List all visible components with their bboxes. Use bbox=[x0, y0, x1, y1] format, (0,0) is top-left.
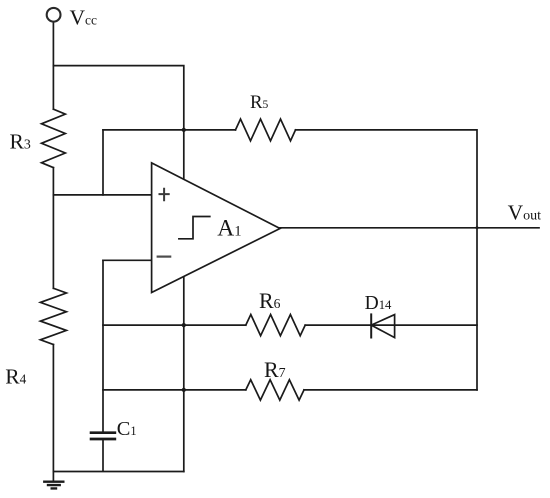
junction dot output column/Vout bbox=[476, 226, 479, 229]
wire C1 bottom bbox=[102, 439, 104, 472]
diode D14 triangle bbox=[371, 315, 394, 338]
resistor R7 bbox=[246, 380, 304, 400]
wire R5 feedback drop to + node bbox=[102, 130, 104, 195]
resistor R6 bbox=[246, 315, 305, 336]
wire R4 bottom to ground bbox=[52, 345, 54, 482]
wire Vcc rail and supply drop behind op-amp bbox=[53, 66, 183, 472]
wire ground rail bottom bbox=[53, 471, 183, 473]
resistor R5 bbox=[236, 119, 296, 141]
resistor R4 bbox=[40, 288, 66, 344]
wire output Vout bbox=[280, 227, 539, 229]
svg-text:D14: D14 bbox=[365, 293, 392, 314]
svg-text:R4: R4 bbox=[5, 364, 26, 388]
svg-text:R7: R7 bbox=[264, 357, 286, 382]
ground symbol bbox=[43, 482, 64, 489]
wire Vcc terminal to R3 top bbox=[52, 22, 54, 110]
wire divider node to + input bbox=[53, 194, 151, 196]
wire R7 line left bbox=[103, 389, 246, 391]
svg-text:C1: C1 bbox=[117, 418, 137, 440]
op-amp A1 body bbox=[152, 163, 280, 293]
junction dot supply/R6 crossing bbox=[182, 323, 186, 327]
junction dot supply/R7 crossing bbox=[182, 388, 186, 392]
wire R5 to output column bbox=[296, 130, 478, 390]
resistor R3 bbox=[42, 109, 66, 167]
svg-text:R3: R3 bbox=[10, 130, 31, 154]
diode D14 bar bbox=[370, 313, 372, 338]
wire R3 bottom to R4 top bbox=[52, 168, 54, 289]
svg-text:Vcc: Vcc bbox=[70, 5, 98, 29]
wire R6 through diode to output column bbox=[305, 324, 477, 326]
wire - input stub bbox=[103, 259, 152, 261]
svg-text:Vout: Vout bbox=[508, 200, 542, 224]
capacitor C1 plates bbox=[90, 433, 117, 439]
op-amp + input mark bbox=[159, 188, 170, 202]
junction dot supply/R5 crossing bbox=[182, 128, 186, 132]
op-amp - input mark bbox=[157, 256, 172, 258]
op-amp hysteresis step symbol bbox=[179, 217, 210, 239]
wire R6 line left bbox=[103, 324, 246, 326]
terminal Vcc circle bbox=[47, 8, 61, 22]
svg-text:R5: R5 bbox=[250, 92, 269, 113]
svg-text:R6: R6 bbox=[259, 288, 281, 313]
wire R7 right bbox=[304, 389, 477, 391]
wire left feedback column down to C1 bbox=[102, 260, 104, 432]
wire R5 line left bbox=[103, 129, 236, 131]
